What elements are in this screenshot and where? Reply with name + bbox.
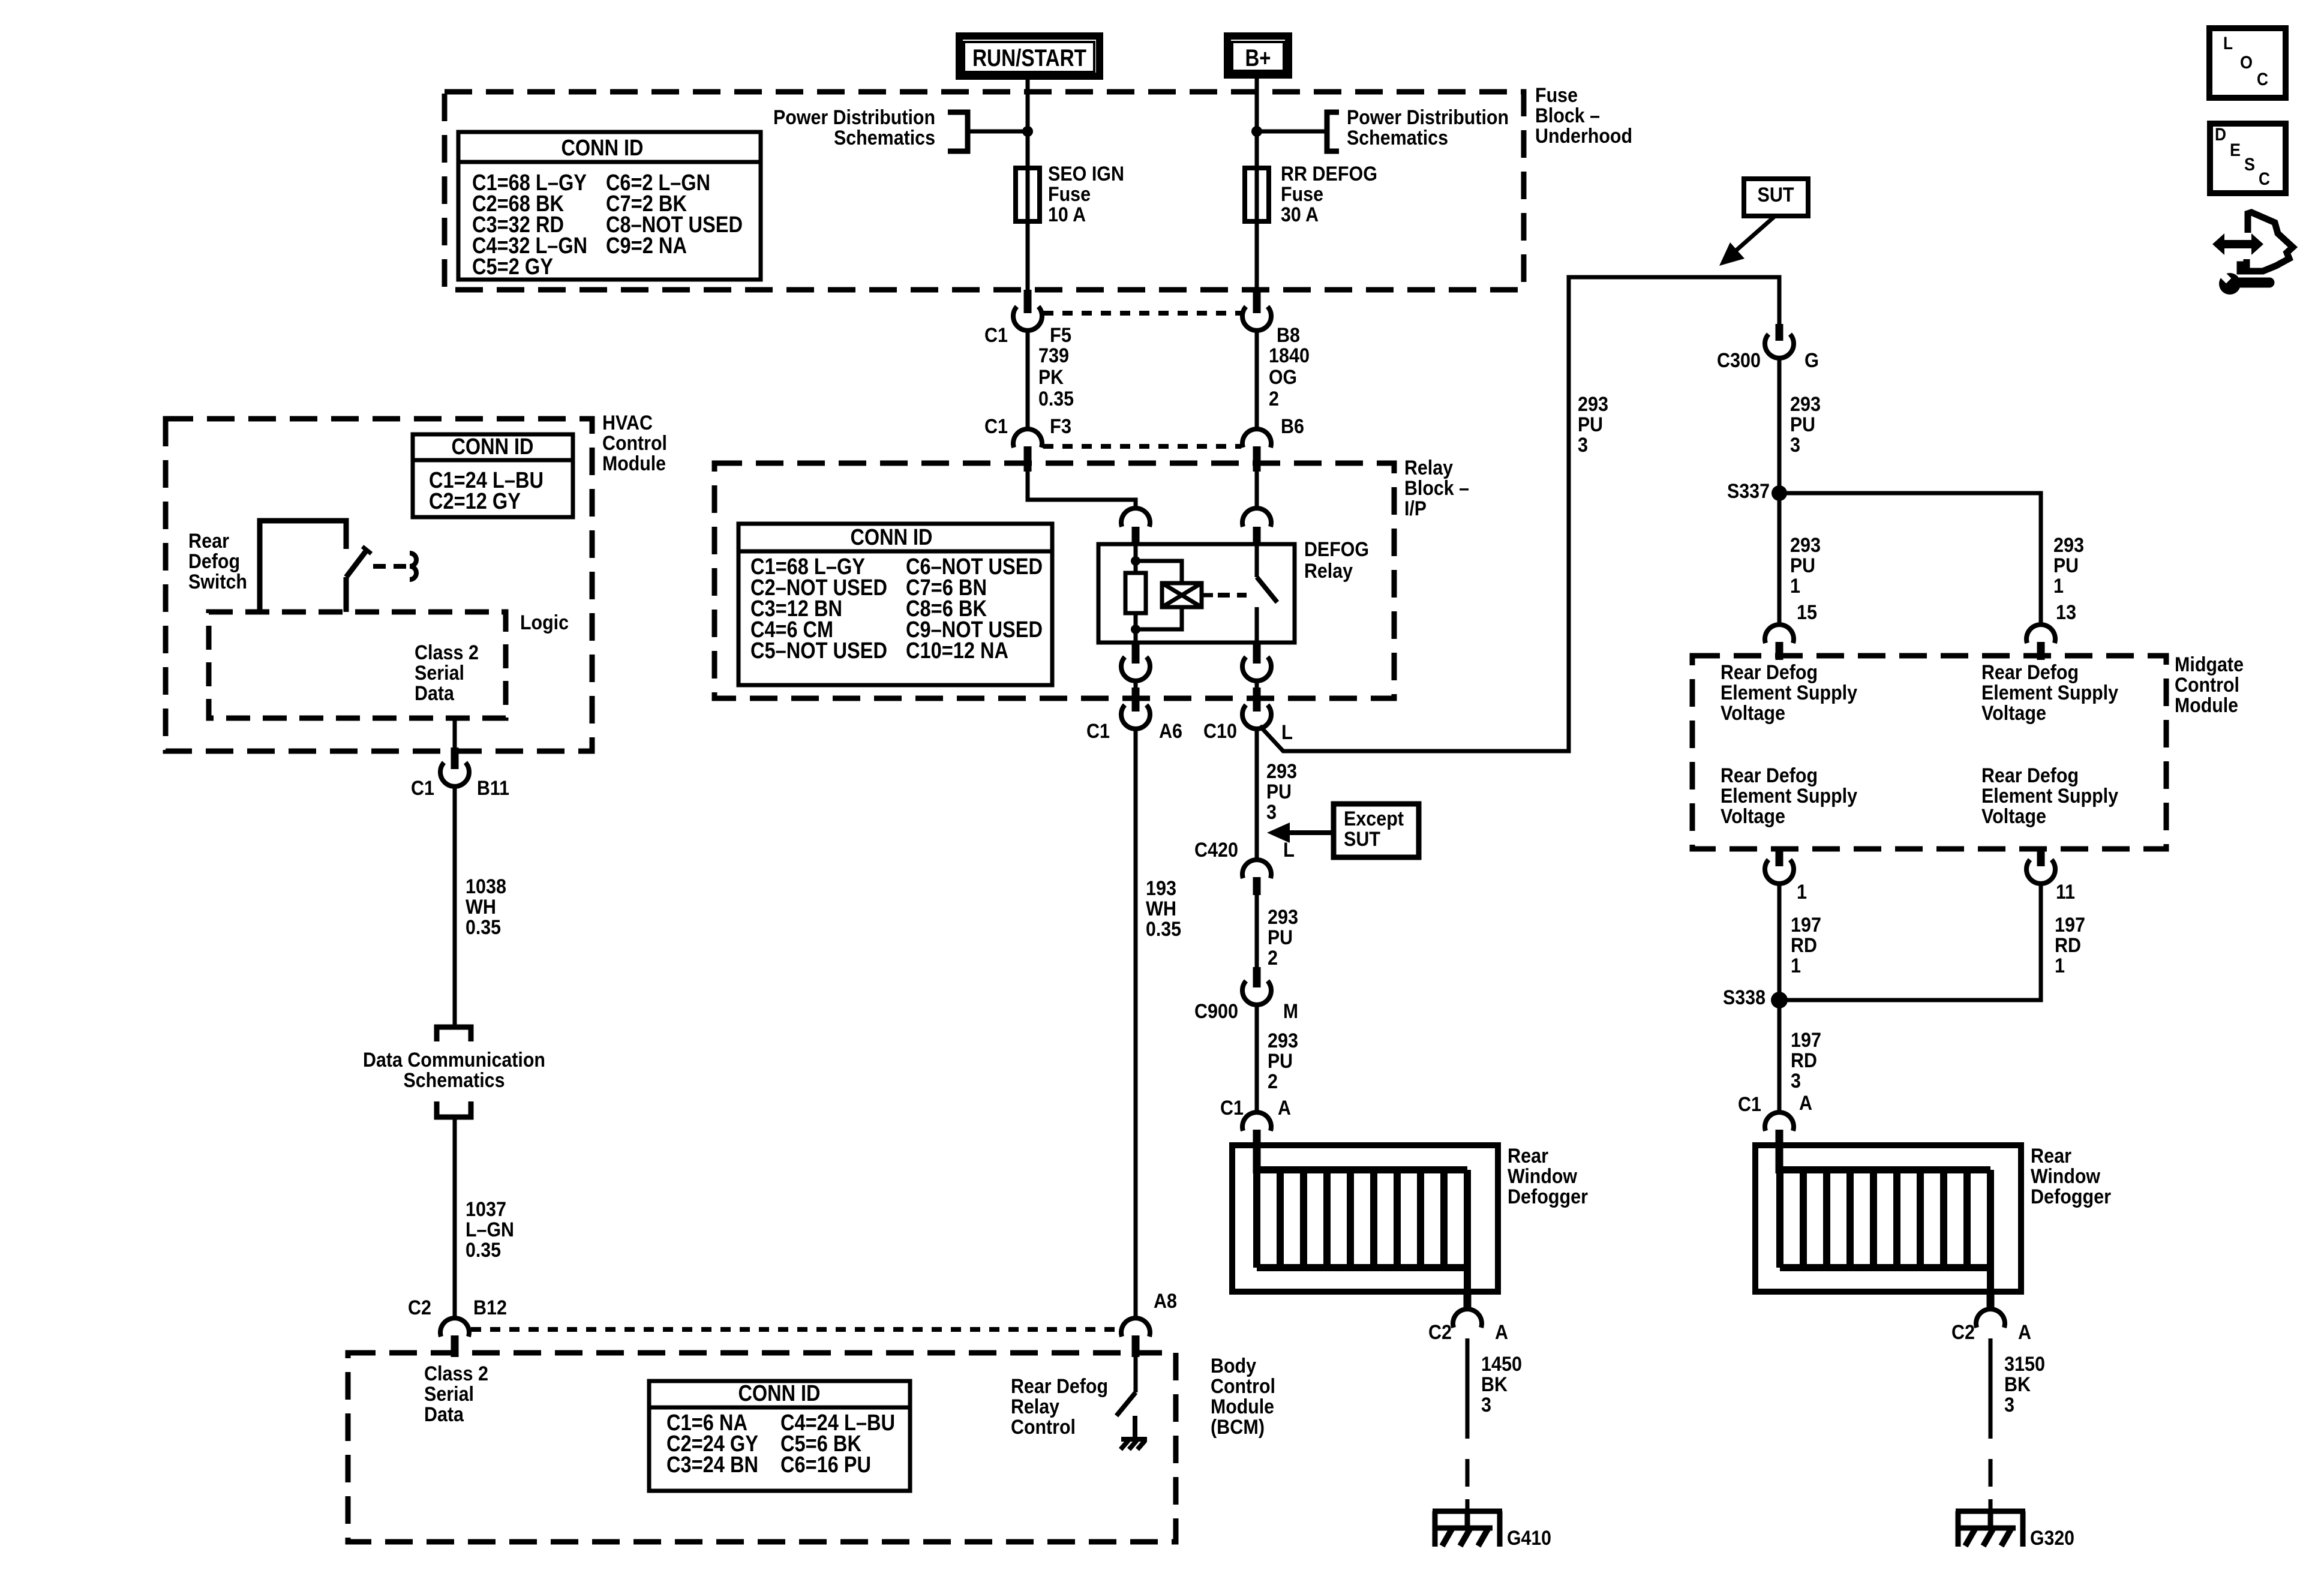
svg-text:Data: Data xyxy=(424,1403,464,1426)
svg-text:F5: F5 xyxy=(1050,324,1071,347)
junction dot (coil top) xyxy=(1131,556,1140,566)
wire 293 PU 3 (except SUT) xyxy=(1255,728,1259,861)
svg-text:PU: PU xyxy=(1268,926,1293,949)
off-page break (data communication) xyxy=(437,1027,471,1117)
svg-text:Serial: Serial xyxy=(424,1383,474,1406)
svg-text:CONN ID: CONN ID xyxy=(452,434,534,460)
dotted connector line (bottom) xyxy=(1043,444,1241,449)
label Body Control Module (BCM) xyxy=(1211,1355,1275,1439)
label B12 xyxy=(473,1296,507,1319)
svg-text:Module: Module xyxy=(2175,694,2238,717)
icon outline shape xyxy=(2240,212,2293,271)
label Rear Defog Element Supply Voltage (BR) xyxy=(1981,764,2118,828)
label Fuse Block - Underhood xyxy=(1535,84,1632,148)
svg-text:C2: C2 xyxy=(408,1296,431,1319)
label 13 xyxy=(2056,601,2076,624)
svg-text:2: 2 xyxy=(1268,947,1278,969)
connector C1 pin A8 xyxy=(1121,1318,1150,1357)
svg-text:CONN ID: CONN ID xyxy=(738,1381,821,1406)
wire 197 RD 3 xyxy=(1777,1008,1782,1114)
label 293 PU 2 (upper) xyxy=(1268,906,1298,969)
svg-text:C1: C1 xyxy=(1738,1093,1761,1116)
svg-text:C9=2 NA: C9=2 NA xyxy=(606,233,687,259)
svg-text:3: 3 xyxy=(1790,434,1800,457)
svg-text:Class 2: Class 2 xyxy=(415,641,479,664)
relay coil output connector xyxy=(1121,643,1150,681)
svg-text:S338: S338 xyxy=(1723,986,1765,1009)
svg-text:Element Supply: Element Supply xyxy=(1721,785,1857,807)
svg-text:293: 293 xyxy=(1790,534,1821,557)
svg-text:Midgate: Midgate xyxy=(2175,653,2244,676)
svg-text:A8: A8 xyxy=(1154,1290,1177,1313)
svg-text:HVAC: HVAC xyxy=(602,412,653,434)
svg-text:Module: Module xyxy=(602,452,666,475)
svg-text:BK: BK xyxy=(2004,1373,2031,1396)
label F5 xyxy=(1050,324,1071,347)
relay switch terminal connector xyxy=(1242,508,1271,546)
label Power Distribution Schematics (right) xyxy=(1347,106,1509,149)
svg-text:Control: Control xyxy=(602,432,667,455)
svg-text:D: D xyxy=(2215,125,2226,145)
connector C2 pin A (left) xyxy=(1453,1309,1482,1328)
svg-text:1038: 1038 xyxy=(466,875,506,898)
svg-text:Power Distribution: Power Distribution xyxy=(1347,106,1509,129)
label B6 xyxy=(1281,415,1304,438)
svg-text:Logic: Logic xyxy=(520,611,569,634)
svg-text:Serial: Serial xyxy=(415,662,464,685)
wire 293 PU 2 (upper) xyxy=(1255,894,1259,968)
connector C1 pin B8 half xyxy=(1242,290,1271,331)
svg-text:CONN ID: CONN ID xyxy=(562,136,644,161)
wire defogger ground exit (right) xyxy=(1987,1292,1995,1310)
svg-text:Defogger: Defogger xyxy=(1508,1185,1588,1208)
wire relay coil bottom xyxy=(1134,613,1138,643)
label 293 PU 3 (SUT riser) xyxy=(1578,393,1608,457)
label G xyxy=(1804,349,1819,372)
label 293 PU 2 (lower) xyxy=(1268,1029,1298,1093)
svg-text:3: 3 xyxy=(1578,434,1588,457)
svg-text:193: 193 xyxy=(1146,877,1176,900)
mechanical link (dashed) xyxy=(1218,593,1247,598)
svg-text:WH: WH xyxy=(1146,897,1176,920)
svg-text:B8: B8 xyxy=(1277,324,1300,347)
svg-text:Block –: Block – xyxy=(1535,104,1600,127)
svg-text:Relay: Relay xyxy=(1304,560,1353,583)
wire fuse B6 to relay switch xyxy=(1255,472,1259,510)
svg-text:Block –: Block – xyxy=(1404,477,1469,500)
label M xyxy=(1283,1000,1298,1023)
label 197 RD 1 (left) xyxy=(1791,914,1821,977)
fuse RR DEFOG xyxy=(1245,168,1269,291)
svg-text:PK: PK xyxy=(1038,366,1064,389)
svg-text:2: 2 xyxy=(1269,388,1279,410)
label 1 xyxy=(1797,881,1807,903)
rear defog relay control switch xyxy=(1116,1357,1136,1439)
connector C900 xyxy=(1242,967,1271,1005)
svg-text:BK: BK xyxy=(1481,1373,1508,1396)
label Class 2 Serial Data (HVAC) xyxy=(415,641,479,705)
callout arrow Except SUT xyxy=(1267,822,1334,843)
svg-text:OG: OG xyxy=(1269,366,1297,389)
svg-text:3: 3 xyxy=(1481,1394,1491,1416)
relay switch output connector xyxy=(1242,643,1271,681)
splice S338 xyxy=(1771,992,1788,1008)
svg-text:C2: C2 xyxy=(1428,1321,1452,1344)
connector C1 pin B6 half xyxy=(1242,429,1271,472)
svg-text:B12: B12 xyxy=(473,1296,507,1319)
svg-text:I/P: I/P xyxy=(1404,497,1427,520)
icon double arrow xyxy=(2212,233,2263,255)
svg-text:A: A xyxy=(2018,1321,2031,1344)
wire 1038 WH 0.35 xyxy=(453,786,457,1027)
connector ID table (fuse block) xyxy=(458,132,761,280)
svg-text:C1: C1 xyxy=(1220,1097,1244,1119)
svg-text:C3=24 BN: C3=24 BN xyxy=(666,1452,758,1478)
svg-text:Fuse: Fuse xyxy=(1535,84,1578,107)
connector C420 xyxy=(1242,860,1271,895)
wire 1037 L-GN 0.35 xyxy=(453,1117,457,1319)
svg-text:Control: Control xyxy=(1211,1375,1275,1398)
svg-text:B+: B+ xyxy=(1245,45,1271,71)
rear window defogger (right) xyxy=(1755,1145,2021,1294)
label 197 RD 3 xyxy=(1791,1029,1821,1092)
connector pin 13 xyxy=(2026,625,2055,660)
svg-text:Rear Defog: Rear Defog xyxy=(1721,764,1818,787)
svg-text:10 A: 10 A xyxy=(1048,203,1086,226)
label L (C10) xyxy=(1281,721,1293,744)
svg-text:Relay: Relay xyxy=(1011,1395,1059,1418)
label Rear Defog Relay Control xyxy=(1011,1375,1108,1439)
label B8 xyxy=(1277,324,1300,347)
svg-text:Class 2: Class 2 xyxy=(424,1362,488,1385)
svg-text:C300: C300 xyxy=(1717,349,1761,372)
svg-text:RR DEFOG: RR DEFOG xyxy=(1281,163,1377,185)
svg-text:G410: G410 xyxy=(1507,1527,1551,1550)
svg-text:1: 1 xyxy=(1790,575,1800,598)
label 739 PK 0.35 xyxy=(1038,344,1074,410)
wire 1840 OG 2 xyxy=(1255,330,1259,431)
svg-text:A: A xyxy=(1495,1321,1508,1344)
svg-text:C420: C420 xyxy=(1194,839,1238,861)
svg-text:293: 293 xyxy=(1790,393,1821,416)
connector C1 pin A6 xyxy=(1121,688,1150,729)
svg-text:(BCM): (BCM) xyxy=(1211,1416,1265,1439)
svg-text:C10=12 NA: C10=12 NA xyxy=(906,638,1008,664)
svg-text:293: 293 xyxy=(2053,534,2084,557)
svg-text:1037: 1037 xyxy=(466,1198,506,1221)
svg-text:C: C xyxy=(2257,70,2268,89)
svg-text:293: 293 xyxy=(1268,906,1298,929)
svg-text:RD: RD xyxy=(1791,934,1817,957)
label 293 PU 1 (right) xyxy=(2053,534,2084,598)
svg-text:Module: Module xyxy=(1211,1395,1274,1418)
wire 3150 BK 3 xyxy=(1989,1338,1993,1514)
svg-text:2: 2 xyxy=(1268,1070,1278,1093)
svg-text:C5=2 GY: C5=2 GY xyxy=(472,254,553,280)
connector C1 pin A (right defogger) xyxy=(1765,1112,1794,1173)
rear window defogger (left) xyxy=(1232,1145,1498,1294)
svg-text:Schematics: Schematics xyxy=(834,127,935,149)
label A (right defogger) xyxy=(1799,1092,1812,1115)
svg-text:0.35: 0.35 xyxy=(1146,918,1181,941)
label G410 xyxy=(1507,1527,1551,1550)
svg-text:RD: RD xyxy=(2055,934,2081,957)
ground G410 xyxy=(1433,1511,1502,1547)
relay coil terminal connector xyxy=(1121,508,1150,546)
svg-text:C2=12 GY: C2=12 GY xyxy=(429,489,521,514)
svg-text:Power Distribution: Power Distribution xyxy=(773,106,935,129)
svg-text:197: 197 xyxy=(2055,914,2085,936)
fuse SEO IGN xyxy=(1016,168,1040,291)
connector pin 1 xyxy=(1765,847,1794,884)
svg-text:0.35: 0.35 xyxy=(1038,388,1074,410)
svg-text:3150: 3150 xyxy=(2004,1353,2045,1376)
connector pin 15 xyxy=(1765,625,1794,660)
svg-text:0.35: 0.35 xyxy=(466,1239,501,1262)
svg-text:Defogger: Defogger xyxy=(2031,1185,2111,1208)
label 193 WH 0.35 xyxy=(1146,877,1181,941)
svg-text:L: L xyxy=(2223,34,2233,53)
svg-text:M: M xyxy=(1283,1000,1298,1023)
wire defogger ground exit (left) xyxy=(1464,1292,1472,1310)
label B11 xyxy=(477,777,509,800)
svg-text:S: S xyxy=(2244,155,2255,175)
svg-text:SUT: SUT xyxy=(1758,184,1794,206)
svg-text:Rear: Rear xyxy=(1508,1145,1548,1167)
svg-text:1450: 1450 xyxy=(1481,1353,1522,1376)
svg-text:Body: Body xyxy=(1211,1355,1256,1377)
label 1038 WH 0.35 xyxy=(466,875,506,939)
label C1 (B11) xyxy=(411,777,434,800)
svg-text:B11: B11 xyxy=(477,777,509,800)
svg-text:SUT: SUT xyxy=(1344,828,1380,851)
svg-text:Element Supply: Element Supply xyxy=(1981,682,2118,704)
svg-text:Rear Defog: Rear Defog xyxy=(1721,661,1818,684)
wire 193 WH 0.35 xyxy=(1134,728,1138,1319)
svg-text:S337: S337 xyxy=(1727,480,1770,503)
wire 1450 BK 3 xyxy=(1466,1338,1470,1514)
relay coil branch xyxy=(1136,561,1182,629)
svg-text:Rear: Rear xyxy=(2031,1145,2071,1167)
svg-text:PU: PU xyxy=(1266,781,1292,803)
svg-text:G320: G320 xyxy=(2030,1527,2074,1550)
label L (C420) xyxy=(1283,839,1295,861)
svg-text:13: 13 xyxy=(2056,601,2076,624)
relay coil element xyxy=(1162,583,1213,607)
label C1 (F5) xyxy=(984,324,1008,347)
svg-text:C1: C1 xyxy=(1086,720,1110,743)
label C300 xyxy=(1717,349,1761,372)
svg-text:WH: WH xyxy=(466,896,496,918)
label C420 xyxy=(1194,839,1238,861)
svg-text:CONN ID: CONN ID xyxy=(851,525,933,550)
label A (C2 right) xyxy=(2018,1321,2031,1344)
label C10 xyxy=(1203,720,1237,743)
relay DEFOG box xyxy=(1098,544,1295,643)
svg-text:293: 293 xyxy=(1578,393,1608,416)
wire B+ feed xyxy=(1255,79,1259,169)
svg-text:C2: C2 xyxy=(1951,1321,1975,1344)
wire RUN/START feed xyxy=(1026,80,1030,169)
label G320 xyxy=(2030,1527,2074,1550)
svg-text:Data Communication: Data Communication xyxy=(363,1049,545,1071)
label Relay Block - I/P xyxy=(1404,457,1469,520)
svg-text:PU: PU xyxy=(1268,1050,1293,1073)
connector ID table (HVAC) xyxy=(413,434,573,517)
wire 197 RD 1 (right) xyxy=(1786,883,2041,1000)
svg-text:E: E xyxy=(2230,140,2241,160)
svg-text:3: 3 xyxy=(2004,1394,2014,1416)
label Rear Defog Element Supply Voltage (TR) xyxy=(1981,661,2118,725)
svg-text:F3: F3 xyxy=(1050,415,1071,438)
connector C10 pin L xyxy=(1242,688,1271,729)
label Midgate Control Module xyxy=(2175,653,2244,717)
connector pin 11 xyxy=(2026,847,2055,884)
label F3 xyxy=(1050,415,1071,438)
svg-text:C900: C900 xyxy=(1194,1000,1238,1023)
fuse block - underhood box xyxy=(445,92,1524,290)
connector ID table (BCM) xyxy=(649,1381,910,1491)
label 1450 BK 3 xyxy=(1481,1353,1522,1416)
label Logic xyxy=(520,611,569,634)
svg-text:L: L xyxy=(1283,839,1295,861)
label C1 (F3) xyxy=(984,415,1008,438)
svg-text:O: O xyxy=(2240,53,2253,73)
svg-text:Window: Window xyxy=(2031,1165,2100,1188)
svg-text:Fuse: Fuse xyxy=(1048,183,1091,206)
midgate control module box xyxy=(1692,656,2166,849)
wire 293 PU 3 (C300 to S337) xyxy=(1777,358,1782,487)
wire switch output xyxy=(1255,680,1259,688)
label Rear Defog Switch xyxy=(188,530,247,593)
label Class 2 Serial Data (BCM) xyxy=(424,1362,488,1426)
label DEFOG Relay xyxy=(1304,538,1369,583)
wire relay coil top xyxy=(1134,544,1138,574)
svg-text:B6: B6 xyxy=(1281,415,1304,438)
splice S337 xyxy=(1771,485,1787,501)
svg-text:Voltage: Voltage xyxy=(1981,805,2046,828)
svg-text:Defog: Defog xyxy=(188,550,240,573)
off-page bracket right xyxy=(1261,112,1339,151)
svg-text:L: L xyxy=(1281,721,1293,744)
svg-text:G: G xyxy=(1804,349,1819,372)
svg-text:PU: PU xyxy=(2053,554,2079,577)
svg-text:Relay: Relay xyxy=(1404,457,1453,479)
HVAC control module box xyxy=(166,419,592,751)
wire S337 to pin 15 xyxy=(1777,499,1782,626)
svg-text:A6: A6 xyxy=(1159,720,1182,743)
relay switch contact xyxy=(1257,544,1277,643)
label Data Communication Schematics xyxy=(363,1049,545,1092)
svg-text:Switch: Switch xyxy=(188,571,247,593)
svg-text:Voltage: Voltage xyxy=(1721,702,1785,725)
svg-text:1: 1 xyxy=(1797,881,1807,903)
label 293 PU 1 (left) xyxy=(1790,534,1821,598)
body control module box xyxy=(348,1353,1176,1542)
svg-text:SEO IGN: SEO IGN xyxy=(1048,163,1124,185)
svg-text:C10: C10 xyxy=(1203,720,1237,743)
connector C2 pin B12 xyxy=(440,1318,469,1357)
label HVAC Control Module xyxy=(602,412,667,475)
svg-text:C1: C1 xyxy=(984,415,1008,438)
connector C300 pin G xyxy=(1765,324,1794,358)
svg-text:Element Supply: Element Supply xyxy=(1721,682,1857,704)
junction dot (coil bottom) xyxy=(1131,625,1140,634)
callout arrow SUT xyxy=(1719,216,1775,266)
wire 739 PK 0.35 xyxy=(1026,330,1030,431)
resistor (relay suppression) xyxy=(1125,573,1146,613)
label C1 (defogger A) xyxy=(1220,1097,1244,1119)
svg-text:0.35: 0.35 xyxy=(466,916,501,939)
label C2 (B12) xyxy=(408,1296,431,1319)
svg-text:Data: Data xyxy=(415,682,455,705)
svg-text:197: 197 xyxy=(1791,914,1821,936)
switch actuator link (dashed) xyxy=(373,553,416,580)
svg-text:C5–NOT USED: C5–NOT USED xyxy=(750,638,887,664)
svg-text:Control: Control xyxy=(1011,1416,1076,1439)
power feed box B+ xyxy=(1227,36,1289,75)
wire 293 PU 3 (SUT branch) xyxy=(1260,277,1779,751)
connector C1 pin F5 xyxy=(1013,290,1042,331)
svg-text:30 A: 30 A xyxy=(1281,203,1319,226)
label 3150 BK 3 xyxy=(2004,1353,2045,1416)
icon wrench xyxy=(2218,270,2269,295)
label 15 xyxy=(1797,601,1817,624)
svg-text:RD: RD xyxy=(1791,1049,1817,1072)
label S338 xyxy=(1723,986,1765,1009)
svg-text:PU: PU xyxy=(1790,413,1815,436)
svg-text:197: 197 xyxy=(1791,1029,1821,1052)
wire coil output xyxy=(1134,680,1138,688)
label C900 xyxy=(1194,1000,1238,1023)
svg-text:293: 293 xyxy=(1266,760,1297,783)
label A8 xyxy=(1154,1290,1177,1313)
svg-text:Rear Defog: Rear Defog xyxy=(1981,661,2079,684)
svg-text:PU: PU xyxy=(1790,554,1815,577)
wire 293 PU 2 (lower) xyxy=(1255,1004,1259,1114)
label Rear Window Defogger (right) xyxy=(2031,1145,2111,1208)
svg-text:Window: Window xyxy=(1508,1165,1577,1188)
logic box xyxy=(209,612,506,718)
wire 197 RD 1 (left) xyxy=(1777,883,1782,993)
svg-text:RUN/START: RUN/START xyxy=(972,45,1086,71)
svg-text:Rear Defog: Rear Defog xyxy=(1981,764,2079,787)
svg-text:L–GN: L–GN xyxy=(466,1218,514,1241)
label Rear Defog Element Supply Voltage (BL) xyxy=(1721,764,1857,828)
label A (defogger) xyxy=(1278,1097,1291,1119)
svg-text:3: 3 xyxy=(1791,1070,1801,1092)
label SEO IGN Fuse 10 A xyxy=(1048,163,1124,226)
svg-text:PU: PU xyxy=(1578,413,1603,436)
callout box SUT xyxy=(1744,179,1808,216)
svg-text:Rear Defog: Rear Defog xyxy=(1011,1375,1108,1398)
junction node (B+ feed) xyxy=(1251,126,1262,137)
rear defog switch xyxy=(260,521,371,612)
svg-text:Fuse: Fuse xyxy=(1281,183,1323,206)
connector ID table (relay block) xyxy=(738,524,1052,685)
label 1037 L-GN 0.35 xyxy=(466,1198,514,1262)
svg-text:Voltage: Voltage xyxy=(1981,702,2046,725)
svg-text:Voltage: Voltage xyxy=(1721,805,1785,828)
label A6 xyxy=(1159,720,1182,743)
svg-text:DEFOG: DEFOG xyxy=(1304,538,1369,561)
svg-text:C1: C1 xyxy=(411,777,434,800)
svg-text:C6=16 PU: C6=16 PU xyxy=(780,1452,871,1478)
label Power Distribution Schematics (left) xyxy=(773,106,935,149)
svg-text:Schematics: Schematics xyxy=(404,1069,505,1092)
svg-text:A: A xyxy=(1278,1097,1291,1119)
label 293 PU 3 xyxy=(1266,760,1297,824)
